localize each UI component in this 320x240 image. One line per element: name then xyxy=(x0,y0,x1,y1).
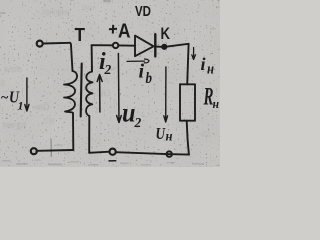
arrow U1 direction xyxy=(25,78,29,111)
svg-text:2: 2 xyxy=(134,115,142,130)
terminal: primary input top xyxy=(37,41,43,47)
wire: bottom horizontal (secondary side) xyxy=(166,153,189,156)
svg-text:ЗЮ: ЗЮ xyxy=(96,88,111,98)
wire: secondary top lead xyxy=(91,45,93,71)
wire: secondary bottom lead xyxy=(88,116,90,153)
svg-text:i: i xyxy=(201,54,206,74)
svg-text:н: н xyxy=(166,130,173,145)
transformer core xyxy=(81,64,82,117)
terminal: primary input bottom xyxy=(31,148,37,154)
svg-text:i: i xyxy=(139,61,145,83)
arrow iB (diode current) xyxy=(127,59,149,63)
svg-text:b: b xyxy=(146,70,153,87)
transformer T primary winding xyxy=(64,71,77,113)
arrow i2 direction xyxy=(97,75,102,113)
wire: primary bottom lead xyxy=(72,113,74,150)
wire: node K to top-right corner xyxy=(167,44,189,47)
svg-text:δ: δ xyxy=(0,78,5,88)
svg-text:ож: ож xyxy=(44,115,55,125)
wire: bottom horizontal middle xyxy=(116,152,166,154)
wire: resistor bottom lead to corner xyxy=(187,121,189,155)
svg-text:клτо: клτо xyxy=(4,64,22,74)
wire: diode to node K xyxy=(155,46,161,48)
wire: top-left horizontal xyxy=(43,42,70,45)
arrow UH direction xyxy=(164,67,168,122)
diode VD triangle xyxy=(135,36,154,57)
node K junction dot xyxy=(162,44,167,49)
svg-text:ил: ил xyxy=(200,129,210,139)
svg-text:н: н xyxy=(207,62,214,78)
svg-text:нвгχл: нвгχл xyxy=(3,120,26,130)
wire: secondary top horizontal to node A xyxy=(92,44,113,46)
svg-text:кவ: кவ xyxy=(84,2,97,12)
terminal: secondary bottom xyxy=(110,149,116,155)
arrow U2 direction xyxy=(117,54,122,123)
label +A plus sign (anode polarity) xyxy=(109,25,117,34)
wire: bottom-left horizontal xyxy=(37,149,73,152)
svg-text:нвO: нвO xyxy=(33,102,50,112)
resistor RH body xyxy=(180,84,195,120)
svg-text:K: K xyxy=(161,24,171,43)
arrow iH direction xyxy=(192,48,196,60)
svg-text:гонтβя: гонтβя xyxy=(42,7,69,17)
paper background xyxy=(0,0,220,167)
terminal: output minus side xyxy=(167,151,172,156)
wire: primary top lead xyxy=(70,43,73,71)
svg-text:T: T xyxy=(75,25,86,45)
svg-text:u: u xyxy=(122,98,136,128)
node A terminal xyxy=(113,43,118,48)
wire: bottom horizontal to secondary lead xyxy=(89,152,109,153)
svg-text:~: ~ xyxy=(1,91,9,106)
faint stray mark on bottom-left wire xyxy=(50,140,52,157)
svg-text:VD: VD xyxy=(135,4,151,20)
wire: node A to diode xyxy=(119,44,135,46)
transformer T secondary winding xyxy=(86,72,93,117)
svg-text:1: 1 xyxy=(18,99,24,113)
svg-text:A: A xyxy=(118,21,131,43)
svg-text:н: н xyxy=(213,96,220,111)
svg-text:U: U xyxy=(156,124,166,143)
svg-text:2: 2 xyxy=(104,62,112,77)
minus sign below secondary bottom terminal xyxy=(109,160,116,162)
diode VD cathode bar xyxy=(154,34,156,56)
wire: right vertical down to resistor xyxy=(187,44,188,85)
